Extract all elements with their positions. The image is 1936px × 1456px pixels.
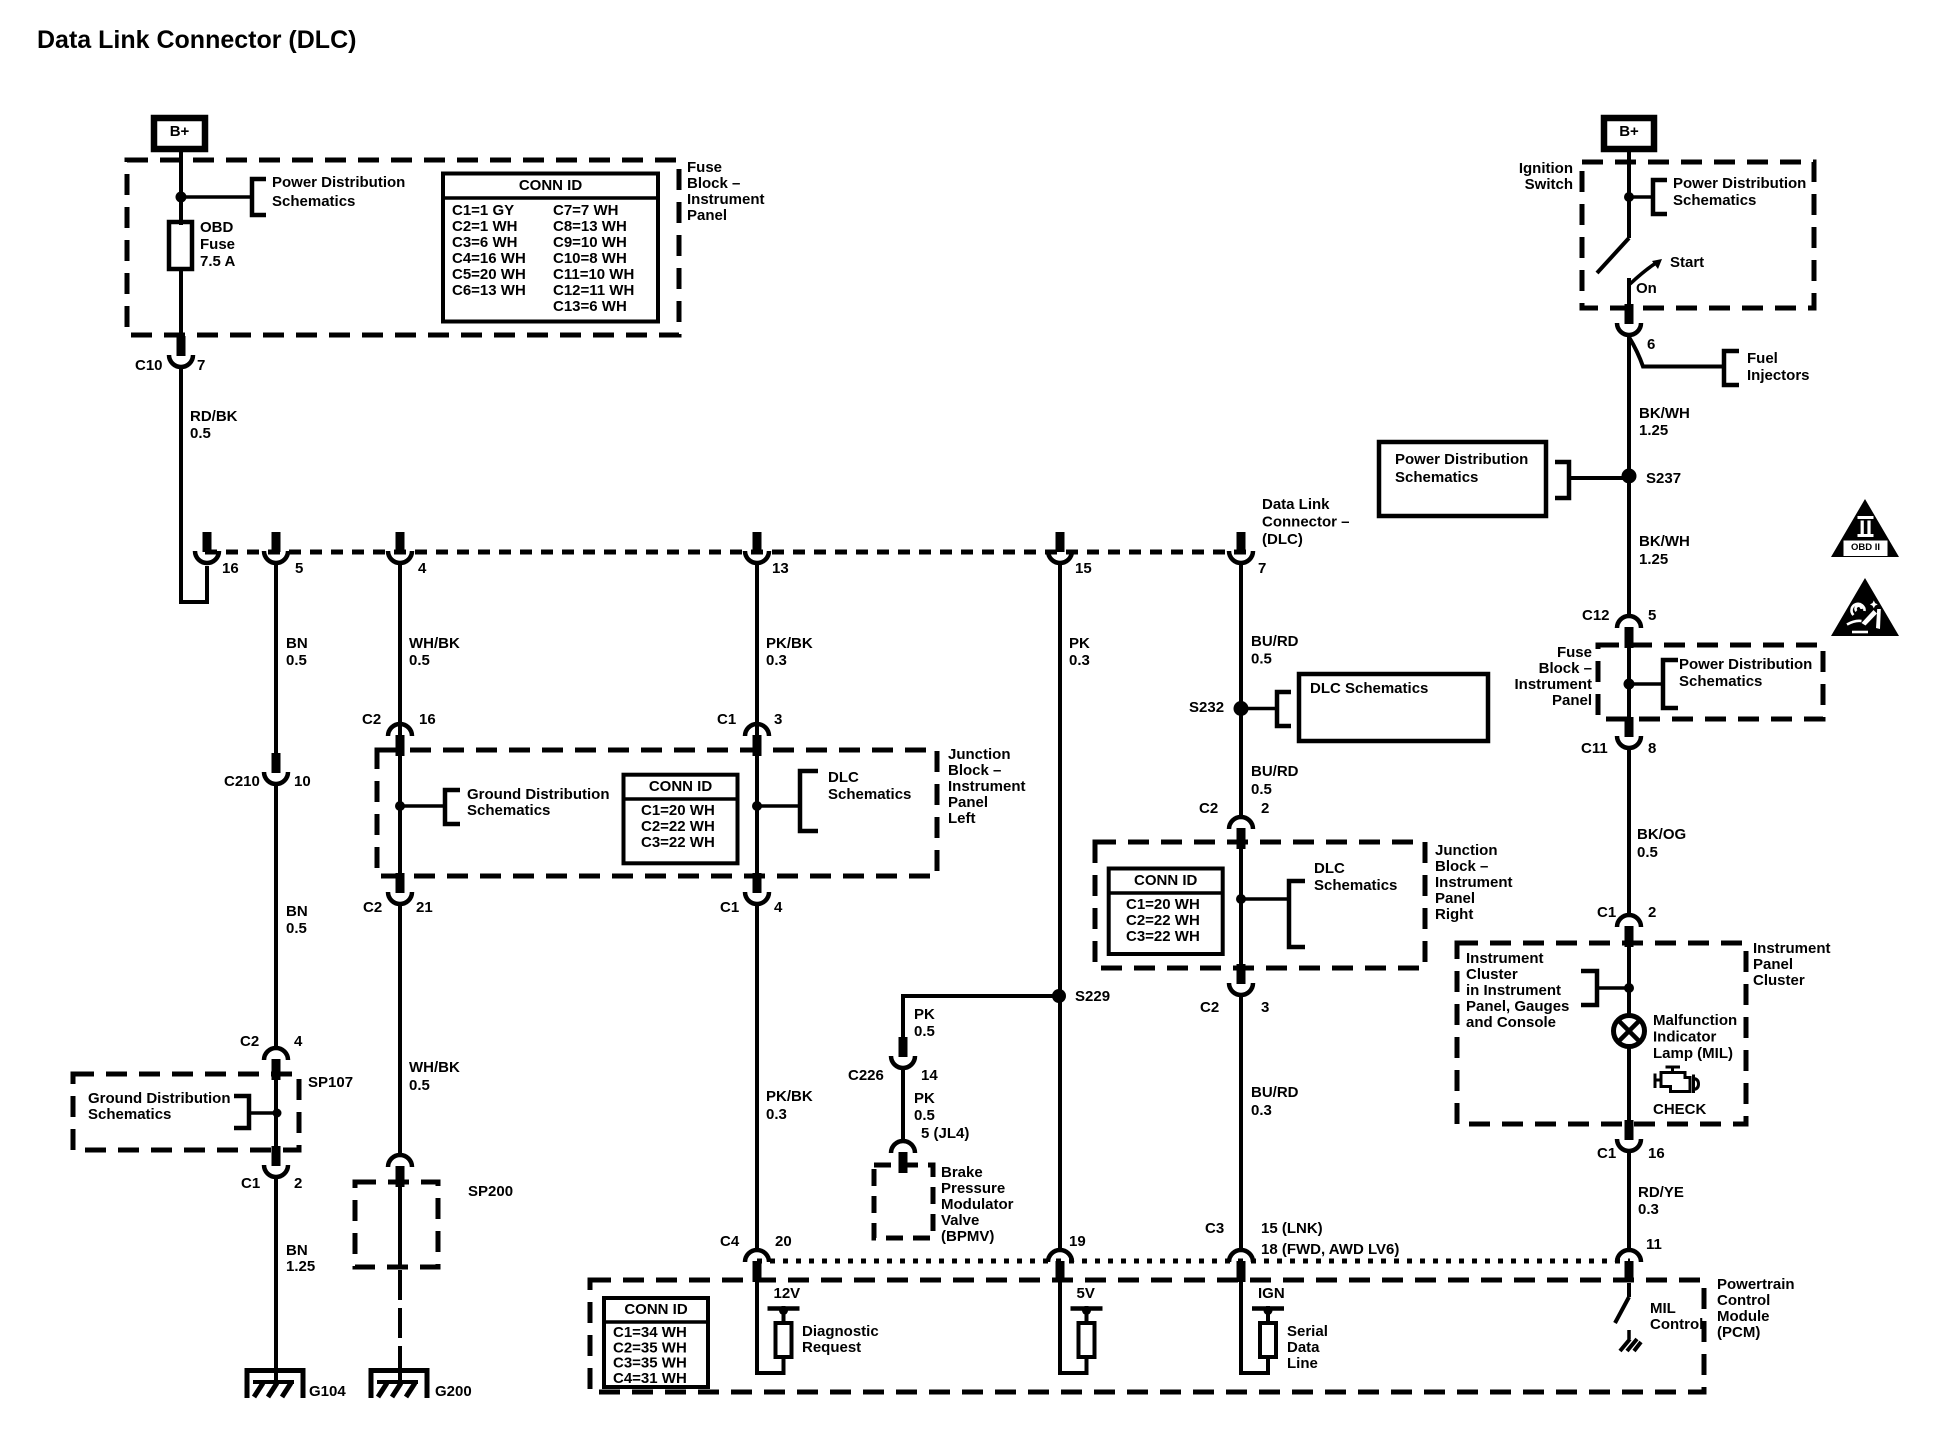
junction block instrument panel right box (dashed) [1095,842,1425,968]
wire through junction block left (PK/BK) [755,750,759,878]
resistor serial data line pull-up to IGN [1241,1281,1268,1373]
svg-text:11: 11 [1646,1236,1662,1253]
wire through fuse block right [1627,645,1631,721]
node junction block left ground branch [395,801,405,811]
svg-text:Data Link: Data Link [1262,496,1330,513]
start position arrow [1630,263,1656,284]
svg-text:BN: BN [286,635,308,652]
ignition switch blade [1597,238,1629,273]
svg-text:Ground Distribution: Ground Distribution [88,1090,230,1107]
svg-text:C2: C2 [362,711,381,728]
svg-text:G104: G104 [309,1383,346,1400]
svg-text:Instrument: Instrument [948,778,1026,795]
svg-text:Cluster: Cluster [1753,972,1805,989]
svg-text:C7=7 WH: C7=7 WH [553,202,618,219]
svg-text:Instrument: Instrument [1753,940,1831,957]
svg-text:Panel: Panel [1753,956,1793,973]
node junction at fuse feed [176,192,187,203]
svg-text:Start: Start [1670,254,1704,271]
connector C1 pin 2 below SP107 [272,1146,281,1166]
connector pin 6 (ignition output) [1625,304,1634,324]
svg-text:C11: C11 [1581,740,1608,757]
svg-text:2: 2 [294,1175,302,1192]
svg-text:0.5: 0.5 [286,920,307,937]
svg-text:0.5: 0.5 [1251,781,1272,798]
svg-text:C4=31 WH: C4=31 WH [613,1370,687,1387]
wire BN 0.5 to C2 pin 4 [274,785,278,1049]
svg-text:Panel: Panel [1552,692,1592,709]
DLC Schematics reference box (solid) [1299,674,1488,741]
wire WH/BK 0.5 from pin 4 [398,564,402,737]
connector C11 pin 8 below fuse block right [1625,717,1634,737]
svg-text:Instrument: Instrument [1466,950,1544,967]
svg-text:C10=8 WH: C10=8 WH [553,250,627,267]
svg-text:PK/BK: PK/BK [766,635,813,652]
connector C3 pins 15/18 into PCM [1229,1250,1253,1262]
svg-text:Block –: Block – [1539,660,1592,677]
splice S232 [1234,701,1249,716]
svg-text:8: 8 [1648,740,1656,757]
svg-text:Instrument: Instrument [1514,676,1592,693]
reference bracket Power Distribution Schematics (ignition) [1653,180,1667,214]
svg-text:0.5: 0.5 [1637,844,1658,861]
wire S232 to DLC Schematics bracket [1241,707,1277,711]
svg-text:C2: C2 [240,1033,259,1050]
power symbol B+ (left) [154,118,205,149]
wire WH/BK 0.5 to SP200 [398,903,402,1154]
svg-text:0.5: 0.5 [286,652,307,669]
svg-text:13: 13 [772,560,789,577]
svg-text:Schematics: Schematics [828,786,911,803]
wire fuse to connector C10 [179,269,183,338]
connector C10 pin 7 [177,336,186,356]
svg-text:Block –: Block – [948,762,1001,779]
wire bracket to cluster node [1597,986,1629,990]
wire to DLC Schematics bracket (junction block right) [1241,897,1289,901]
connector C226 pin 14 [899,1037,908,1057]
svg-text:Right: Right [1435,906,1473,923]
svg-text:C3: C3 [1205,1220,1224,1237]
svg-text:C4: C4 [720,1233,740,1250]
svg-text:2: 2 [1648,904,1656,921]
wire RD/BK 0.5 down from C10 [179,368,183,604]
svg-text:C10: C10 [135,357,163,374]
node junction block right DLC branch [1236,894,1246,904]
svg-text:BU/RD: BU/RD [1251,1084,1299,1101]
svg-text:WH/BK: WH/BK [409,635,460,652]
svg-text:C13=6 WH: C13=6 WH [553,298,627,315]
svg-text:C2=22 WH: C2=22 WH [1126,912,1200,929]
splice pack SP107 box (dashed) [73,1074,299,1150]
svg-text:3: 3 [1261,999,1269,1016]
connector C1 pin 16 below cluster [1625,1120,1634,1140]
svg-text:5V: 5V [1077,1285,1095,1302]
connector pin 19 into PCM [1048,1250,1072,1262]
svg-text:BU/RD: BU/RD [1251,633,1299,650]
svg-text:Schematics: Schematics [1673,192,1756,209]
ignition switch box (dashed) [1582,162,1814,308]
svg-text:PK: PK [914,1090,935,1107]
svg-text:Lamp (MIL): Lamp (MIL) [1653,1045,1733,1062]
svg-text:0.3: 0.3 [1069,652,1090,669]
wire to Ground Distribution bracket (junction block left) [400,804,445,808]
svg-text:C2=1 WH: C2=1 WH [452,218,517,235]
svg-text:S229: S229 [1075,988,1110,1005]
connector C1 pin 2 into instrument panel cluster [1617,915,1641,927]
resistor 5V pull-up [1060,1281,1087,1373]
svg-text:BK/WH: BK/WH [1639,533,1690,550]
svg-text:BN: BN [286,903,308,920]
svg-text:Instrument: Instrument [687,191,765,208]
svg-text:0.3: 0.3 [1638,1201,1659,1218]
svg-text:Panel: Panel [1435,890,1475,907]
wire through junction block right [1239,843,1243,968]
svg-text:0.5: 0.5 [914,1023,935,1040]
check engine icon [1655,1067,1699,1093]
svg-text:and Console: and Console [1466,1014,1556,1031]
wire to Power Distribution bracket (fuse block right) [1629,682,1663,686]
svg-text:14: 14 [921,1067,938,1084]
wire BN 0.5 from pin 5 [274,564,278,758]
svg-text:4: 4 [294,1033,303,1050]
svg-text:Data Link Connector (DLC): Data Link Connector (DLC) [37,26,356,54]
svg-text:Pressure: Pressure [941,1180,1005,1197]
svg-text:CHECK: CHECK [1653,1101,1707,1118]
svg-text:19: 19 [1069,1233,1086,1250]
connector C12 pin 5 into fuse block right [1617,616,1641,628]
svg-text:Module: Module [1717,1308,1770,1325]
connector pin 5 into BPMV [891,1141,915,1153]
svg-text:C9=10 WH: C9=10 WH [553,234,627,251]
svg-text:CONN ID: CONN ID [649,778,713,795]
svg-text:S237: S237 [1646,470,1681,487]
svg-text:B+: B+ [1619,123,1639,140]
power symbol B+ (right) [1604,118,1654,149]
fuse block instrument panel box (top left, dashed) [127,160,679,335]
svg-text:7: 7 [1258,560,1266,577]
DLC connector dashed line [205,550,1248,555]
node ignition feed junction [1624,192,1634,202]
wire BK/WH 1.25 down to S237 [1627,337,1631,615]
wire BU/RD 0.3 to PCM C3 [1239,994,1243,1250]
node junction block left DLC branch [752,801,762,811]
svg-text:1.25: 1.25 [1639,551,1668,568]
svg-text:0.5: 0.5 [914,1107,935,1124]
wire junction to Power Distribution bracket (ignition) [1629,195,1653,199]
svg-text:C1=20 WH: C1=20 WH [1126,896,1200,913]
svg-text:Injectors: Injectors [1747,367,1810,384]
conn id table (PCM) [604,1298,708,1387]
connector C2 pin 3 below junction block right [1237,964,1246,984]
svg-text:Schematics: Schematics [467,802,550,819]
svg-text:C226: C226 [848,1067,884,1084]
splice S229 [1052,989,1066,1003]
reference bracket DLC Schematics (junction block left) [800,771,818,831]
DLC pin 5 connector [272,532,281,552]
connector C210 pin 10 [272,753,281,773]
svg-text:2: 2 [1261,800,1269,817]
svg-text:C1=20 WH: C1=20 WH [641,802,715,819]
reference bracket S237 to box [1555,462,1569,498]
svg-text:C3=6 WH: C3=6 WH [452,234,517,251]
svg-text:Cluster: Cluster [1466,966,1518,983]
svg-text:C1: C1 [720,899,739,916]
node fuse block right junction [1624,679,1635,690]
svg-text:C5=20 WH: C5=20 WH [452,266,526,283]
svg-text:0.5: 0.5 [1251,650,1272,667]
instrument panel cluster box (dashed) [1457,943,1746,1124]
MIL control switch blade [1627,1283,1631,1297]
svg-text:Valve: Valve [941,1212,979,1229]
svg-text:(PCM): (PCM) [1717,1324,1760,1341]
svg-text:SP107: SP107 [308,1074,353,1091]
svg-text:4: 4 [774,899,783,916]
connector C1 pin 3 into junction block left [745,724,769,736]
svg-text:18 (FWD, AWD LV6): 18 (FWD, AWD LV6) [1261,1241,1399,1258]
svg-text:CONN ID: CONN ID [624,1301,688,1318]
svg-text:0.5: 0.5 [409,652,430,669]
svg-text:C4=16 WH: C4=16 WH [452,250,526,267]
reference bracket DLC Schematics (S232) [1277,692,1291,726]
ground G200 [371,1371,427,1399]
svg-text:SP200: SP200 [468,1183,513,1200]
reference bracket Ground Distribution Schematics (junction block left) [445,790,460,824]
svg-text:20: 20 [775,1233,792,1250]
technician warning triangle icon [1831,578,1899,636]
svg-text:S232: S232 [1189,699,1224,716]
svg-text:0.3: 0.3 [766,1106,787,1123]
svg-text:Block –: Block – [1435,858,1488,875]
svg-text:1.25: 1.25 [286,1258,315,1275]
wire ignition On contact down [1627,278,1631,310]
wire into MIL lamp [1627,943,1631,1016]
connector C2 pin 16 into junction block left [388,724,412,736]
svg-text:Schematics: Schematics [1314,877,1397,894]
svg-text:Schematics: Schematics [1395,469,1478,486]
svg-text:PK: PK [914,1006,935,1023]
svg-text:Junction: Junction [948,746,1011,763]
svg-text:Line: Line [1287,1355,1318,1372]
svg-text:0.3: 0.3 [1251,1102,1272,1119]
reference bracket Power Distribution Schematics (fuse block right) [1663,660,1678,708]
powertrain control module box (dashed) [590,1280,1704,1392]
svg-text:DLC Schematics: DLC Schematics [1310,680,1428,697]
DLC pin 4 connector [396,532,405,552]
svg-text:BK/WH: BK/WH [1639,405,1690,422]
svg-text:Indicator: Indicator [1653,1028,1717,1045]
svg-text:(DLC): (DLC) [1262,531,1303,548]
connector pin 11 into PCM [1617,1250,1641,1262]
svg-text:5: 5 [1648,607,1656,624]
wire SP200 to ground G200 (dashed) [398,1270,402,1368]
svg-text:Fuel: Fuel [1747,350,1778,367]
svg-text:Diagnostic: Diagnostic [802,1323,879,1340]
svg-text:DLC: DLC [828,769,859,786]
svg-text:C11=10 WH: C11=10 WH [553,266,634,283]
connector C1 pin 4 below junction block left [753,873,762,893]
svg-text:0.5: 0.5 [409,1077,430,1094]
svg-text:Ignition: Ignition [1519,160,1573,177]
svg-text:0.3: 0.3 [766,652,787,669]
wire through SP200 [398,1182,402,1267]
svg-text:CONN ID: CONN ID [519,177,583,194]
DLC pin 15 connector [1056,532,1065,552]
svg-text:3: 3 [774,711,782,728]
resistor diagnostic request pull-up to 12V [757,1281,784,1373]
svg-text:Panel, Gauges: Panel, Gauges [1466,998,1569,1015]
ground symbol (MIL control internal) [1627,1330,1631,1339]
wire BK/OG 0.5 to instrument cluster [1627,747,1631,913]
svg-text:5: 5 [295,560,303,577]
wire branch to fuel injectors [1629,337,1724,367]
svg-text:PK/BK: PK/BK [766,1088,813,1105]
svg-text:Power Distribution: Power Distribution [1395,451,1528,468]
svg-text:B+: B+ [170,123,190,140]
svg-text:5 (JL4): 5 (JL4) [921,1125,969,1142]
svg-text:15: 15 [1075,560,1092,577]
svg-text:BU/RD: BU/RD [1251,763,1299,780]
malfunction indicator lamp (MIL) symbol [1614,1016,1645,1047]
Power Distribution Schematics reference box (solid) [1379,442,1546,516]
svg-text:C2: C2 [1200,999,1219,1016]
svg-text:Data: Data [1287,1339,1320,1356]
svg-text:10: 10 [294,773,311,790]
svg-text:RD/YE: RD/YE [1638,1184,1684,1201]
svg-text:On: On [1636,280,1657,297]
splice pack SP200 box (dashed) [355,1182,438,1267]
svg-text:7: 7 [197,357,205,374]
svg-text:Panel: Panel [948,794,988,811]
svg-text:4: 4 [418,560,427,577]
svg-text:Schematics: Schematics [88,1106,171,1123]
OBD II warning triangle icon [1831,499,1899,557]
svg-text:C3=22 WH: C3=22 WH [1126,928,1200,945]
svg-text:1.25: 1.25 [1639,422,1668,439]
conn id table (junction block right) [1109,869,1223,955]
node cluster lamp feed [1624,983,1634,993]
svg-text:C12: C12 [1582,607,1610,624]
svg-text:Fuse: Fuse [200,236,235,253]
svg-text:BN: BN [286,1242,308,1259]
fuse OBD Fuse 7.5 A [169,222,192,269]
svg-text:Control: Control [1717,1292,1770,1309]
svg-text:16: 16 [1648,1145,1665,1162]
reference bracket DLC Schematics (junction block right) [1289,881,1305,947]
svg-text:Ground Distribution: Ground Distribution [467,786,609,803]
wire PK/BK 0.3 from pin 13 [755,564,759,737]
reference bracket Ground Distribution Schematics (SP107) [234,1096,249,1128]
svg-text:MIL: MIL [1650,1300,1676,1317]
svg-text:Power Distribution: Power Distribution [1679,656,1812,673]
brake pressure modulator valve box (dashed) [874,1165,933,1238]
wire bracket to SP107 splice node [249,1111,277,1115]
fuse block instrument panel right box (dashed) [1598,645,1823,719]
svg-text:C2: C2 [1199,800,1218,817]
svg-text:C1: C1 [241,1175,260,1192]
junction block instrument panel left box (dashed) [377,750,937,876]
svg-text:Connector –: Connector – [1262,513,1350,530]
svg-text:Power Distribution: Power Distribution [272,174,405,191]
svg-text:16: 16 [419,711,436,728]
wire BN 1.25 to ground G104 [274,1177,278,1370]
svg-text:WH/BK: WH/BK [409,1059,460,1076]
PCM pins dotted line [757,1259,1630,1264]
svg-text:Schematics: Schematics [1679,673,1762,690]
connector C4 pin 20 into PCM [745,1250,769,1262]
svg-text:Fuse: Fuse [1557,644,1592,661]
svg-text:Panel: Panel [687,207,727,224]
svg-text:BK/OG: BK/OG [1637,826,1686,843]
wire bracket to S237 [1569,476,1629,480]
svg-text:C1: C1 [1597,904,1616,921]
svg-text:Switch: Switch [1525,176,1573,193]
svg-text:C12=11 WH: C12=11 WH [553,282,634,299]
svg-text:OBD: OBD [200,219,234,236]
splice S237 [1622,469,1637,484]
svg-text:Brake: Brake [941,1164,983,1181]
wire B+ to OBD fuse [179,149,183,225]
wire RD/YE 0.3 to PCM pin 11 [1627,1152,1631,1250]
svg-text:Fuse: Fuse [687,159,722,176]
svg-text:DLC: DLC [1314,860,1345,877]
connector C2 pin 21 below junction block left [396,873,405,893]
svg-text:16: 16 [222,560,239,577]
DLC pin 13 connector [753,532,762,552]
svg-text:PK: PK [1069,635,1090,652]
node SP107 splice [273,1109,282,1118]
connector into SP200 [388,1155,412,1167]
wire B+ into ignition switch [1627,149,1631,238]
wire through junction block left [398,750,402,878]
reference bracket Power Distribution Schematics (top left) [252,179,266,215]
svg-text:Control: Control [1650,1316,1703,1333]
wire PK/BK 0.3 to PCM pin 20 [755,903,759,1250]
conn id table (junction block left) [624,775,738,864]
svg-text:C3=22 WH: C3=22 WH [641,834,715,851]
svg-text:(BPMV): (BPMV) [941,1228,994,1245]
conn id table (fuse block instrument panel) [443,174,658,322]
svg-text:C210: C210 [224,773,260,790]
svg-text:C1=1 GY: C1=1 GY [452,202,514,219]
svg-text:Power Distribution: Power Distribution [1673,175,1806,192]
svg-text:C1: C1 [717,711,736,728]
ground G104 [247,1371,303,1399]
svg-text:Malfunction: Malfunction [1653,1012,1737,1029]
wire PK 0.3 from pin 15 to PCM pin 19 [1058,564,1062,1250]
svg-text:C8=13 WH: C8=13 WH [553,218,627,235]
svg-text:21: 21 [416,899,433,916]
svg-text:6: 6 [1647,336,1655,353]
svg-text:in Instrument: in Instrument [1466,982,1561,999]
svg-text:Instrument: Instrument [1435,874,1513,891]
connector C2 pin 2 into junction block right [1229,817,1253,829]
svg-text:C2: C2 [363,899,382,916]
wire S229 branch to C226 [903,996,1059,1043]
svg-text:7.5 A: 7.5 A [200,253,235,270]
svg-text:C6=13 WH: C6=13 WH [452,282,526,299]
svg-text:15 (LNK): 15 (LNK) [1261,1220,1323,1237]
wire to DLC Schematics bracket (junction block left) [757,804,800,808]
reference bracket instrument cluster [1581,971,1597,1005]
svg-text:CONN ID: CONN ID [1134,872,1198,889]
wire lamp to C1 pin 16 [1627,1046,1631,1125]
svg-text:Request: Request [802,1339,861,1356]
wire through SP107 [274,1074,278,1150]
svg-text:Block –: Block – [687,175,740,192]
svg-text:Junction: Junction [1435,842,1498,859]
svg-text:Serial: Serial [1287,1323,1328,1340]
wire hook to DLC pin 16 [181,566,207,602]
